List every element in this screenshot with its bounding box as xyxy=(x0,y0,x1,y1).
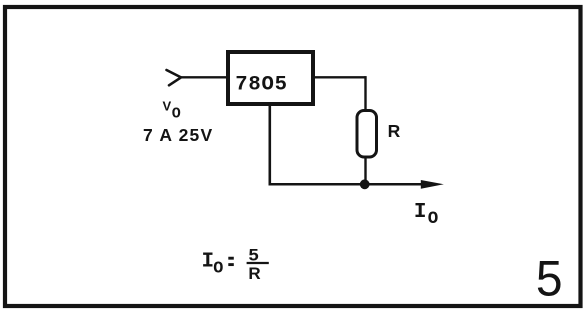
regulator U1 7805 xyxy=(228,52,313,104)
svg-text:7 A 25V: 7 A 25V xyxy=(143,125,213,145)
label IO xyxy=(414,201,438,229)
output arrow xyxy=(421,180,444,189)
svg-text:R: R xyxy=(248,264,260,283)
svg-text:V: V xyxy=(163,98,172,113)
svg-text:O: O xyxy=(428,209,439,229)
svg-text:R: R xyxy=(388,121,401,141)
svg-text:I: I xyxy=(414,201,427,224)
resistor R xyxy=(357,111,377,158)
junction node xyxy=(360,179,370,189)
label VO xyxy=(163,98,181,122)
wire resistor to junction xyxy=(364,157,366,184)
svg-text:O: O xyxy=(172,105,181,122)
svg-text:78O5: 78O5 xyxy=(235,73,288,96)
wire regulator ground pin down xyxy=(268,104,271,186)
figure number 5 xyxy=(536,250,563,306)
input terminal arrow xyxy=(167,70,182,85)
svg-text:O: O xyxy=(213,260,223,279)
wire input to regulator xyxy=(180,76,227,78)
formula IO = 5/R xyxy=(202,245,269,283)
svg-text:5: 5 xyxy=(536,250,563,306)
wire ground to output xyxy=(269,183,427,186)
svg-text:5: 5 xyxy=(248,245,258,264)
wire regulator output to resistor xyxy=(312,76,366,110)
